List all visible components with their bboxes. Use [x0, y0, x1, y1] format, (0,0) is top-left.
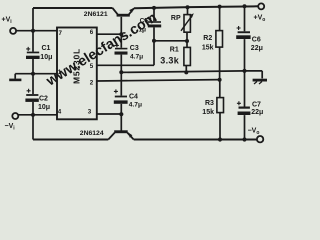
wire R3 top lead [219, 80, 221, 98]
svg-text:C4: C4 [129, 94, 138, 101]
svg-text:R2: R2 [203, 35, 212, 42]
svg-text:4.7μ: 4.7μ [130, 53, 143, 60]
wire R3 bottom lead [219, 113, 221, 140]
wire C5 node to RP/R1 node [154, 40, 187, 42]
wire top rail +Vi segment [33, 7, 113, 9]
terminal +Vi [10, 28, 16, 34]
junction top rail / R2 [218, 5, 222, 9]
svg-text:C1: C1 [42, 45, 51, 52]
svg-text:22μ: 22μ [251, 109, 263, 116]
wire bottom rail -Vi segment [33, 139, 108, 141]
junction pin 2 / R2 / R3 [218, 78, 222, 82]
junction top rail / C6 [243, 4, 247, 8]
capacitor C7 plates [237, 101, 251, 115]
junction top rail / C5 [152, 6, 156, 10]
svg-text:C5: C5 [140, 18, 149, 25]
junction pin 6 / Q1 base / C3 [119, 32, 123, 36]
transistor Q2 2N6124 [108, 130, 133, 139]
wire +Vi to pin 7 [16, 30, 57, 32]
svg-text:−Vo: −Vo [248, 128, 260, 137]
wire R1 bottom lead [185, 66, 187, 73]
junction RP wiper / R1 top [185, 39, 189, 43]
junction pin 3 / Q2 base / C4 [119, 112, 123, 116]
svg-text:R3: R3 [205, 100, 214, 107]
wire pin 1 to ground [33, 73, 57, 75]
resistor R3 [217, 98, 224, 113]
svg-text:1μ: 1μ [138, 27, 146, 34]
svg-text:2N6124: 2N6124 [80, 130, 104, 137]
capacitor C1 plates [26, 47, 40, 59]
terminal -Vo [257, 136, 263, 142]
wire R2 bottom lead [219, 47, 221, 80]
wire -Vi to pin 4 [18, 114, 57, 116]
svg-text:M5230L: M5230L [72, 48, 82, 84]
svg-text:C7: C7 [252, 102, 261, 109]
svg-text:15k: 15k [202, 109, 214, 116]
resistor R1 [184, 47, 191, 65]
transistor Q1 2N6121 [113, 8, 135, 17]
capacitor C5 plates [147, 16, 161, 27]
svg-text:C2: C2 [39, 95, 48, 102]
junction top rail / RP [186, 5, 190, 9]
wire pin 5 to C5 node [97, 41, 154, 66]
svg-text:5: 5 [90, 63, 94, 70]
svg-text:C6: C6 [252, 37, 261, 44]
wire pin 6 to Q1 base node [97, 33, 122, 35]
svg-text:2N6121: 2N6121 [84, 11, 108, 18]
watermark www.elecfans.com [43, 10, 160, 90]
wire bottom rail -Vo segment [134, 139, 257, 141]
svg-text:4: 4 [58, 109, 62, 116]
svg-text:15k: 15k [202, 44, 214, 51]
svg-text:6: 6 [90, 29, 94, 36]
wire top rail +Vo segment [134, 6, 258, 8]
wire left input column [32, 8, 34, 140]
capacitor C4 plates [114, 89, 128, 103]
wire pin 3 to Q2 base node [97, 113, 122, 115]
wire C6 to ground line [244, 39, 246, 71]
terminal -Vi [12, 113, 18, 119]
junction bottom rail / R3 [218, 137, 222, 141]
wire ground line [121, 71, 244, 73]
capacitor C6 plates [236, 26, 250, 39]
junction +Vi / input column [31, 29, 35, 33]
wire R1 top lead [186, 41, 188, 47]
wire ground stub right [245, 71, 263, 79]
resistor R2 [216, 31, 223, 47]
junction ground line / C3-C4 column [119, 70, 123, 74]
wire RP top lead [187, 7, 189, 14]
wire C7 to bottom rail [244, 115, 246, 139]
svg-text:7: 7 [59, 30, 63, 37]
capacitor C2 plates [25, 89, 38, 102]
wire ground line to C7 [244, 71, 246, 107]
ground (right output common) [253, 80, 267, 84]
svg-text:1: 1 [58, 69, 62, 76]
junction -Vi / input column [31, 113, 35, 117]
svg-text:4.7μ: 4.7μ [129, 102, 142, 109]
junction ground line / C6-C7 column [243, 69, 247, 73]
wire C5 column [153, 8, 155, 41]
ground (left input common) [9, 74, 33, 80]
svg-text:−Vi: −Vi [5, 123, 16, 132]
svg-text:3.3k: 3.3k [160, 55, 179, 65]
svg-text:10μ: 10μ [38, 104, 50, 111]
junction C5 / pin 5 node [152, 39, 156, 43]
wire R2 top lead [219, 7, 221, 31]
svg-text:22μ: 22μ [251, 45, 263, 52]
capacitor C3 plates [115, 43, 128, 54]
wire RP bottom lead [186, 32, 188, 41]
op-amp IC U1 M5230L body [57, 28, 97, 120]
potentiometer RP [181, 13, 194, 32]
wire center column C4 to Q2 base [120, 104, 122, 131]
svg-text:+Vo: +Vo [254, 15, 266, 24]
svg-text:10μ: 10μ [40, 54, 52, 61]
wire center column C3 to C4 [120, 55, 122, 96]
wire C6 column top [244, 6, 246, 31]
wire center column Q1 base / C3 [120, 17, 122, 48]
svg-text:RP: RP [171, 15, 181, 22]
svg-text:3: 3 [88, 109, 92, 116]
junction bottom rail / C7 [242, 137, 246, 141]
junction ground line / R1 bottom [184, 70, 188, 74]
wire pin 2 to R2/R3 node [97, 80, 220, 81]
junction ground / C1 / C2 / pin 1 [31, 72, 35, 76]
svg-text:+Vi: +Vi [2, 17, 13, 26]
svg-text:R1: R1 [170, 47, 179, 54]
svg-text:2: 2 [90, 79, 94, 86]
svg-text:C3: C3 [130, 45, 139, 52]
terminal +Vo [258, 3, 264, 9]
